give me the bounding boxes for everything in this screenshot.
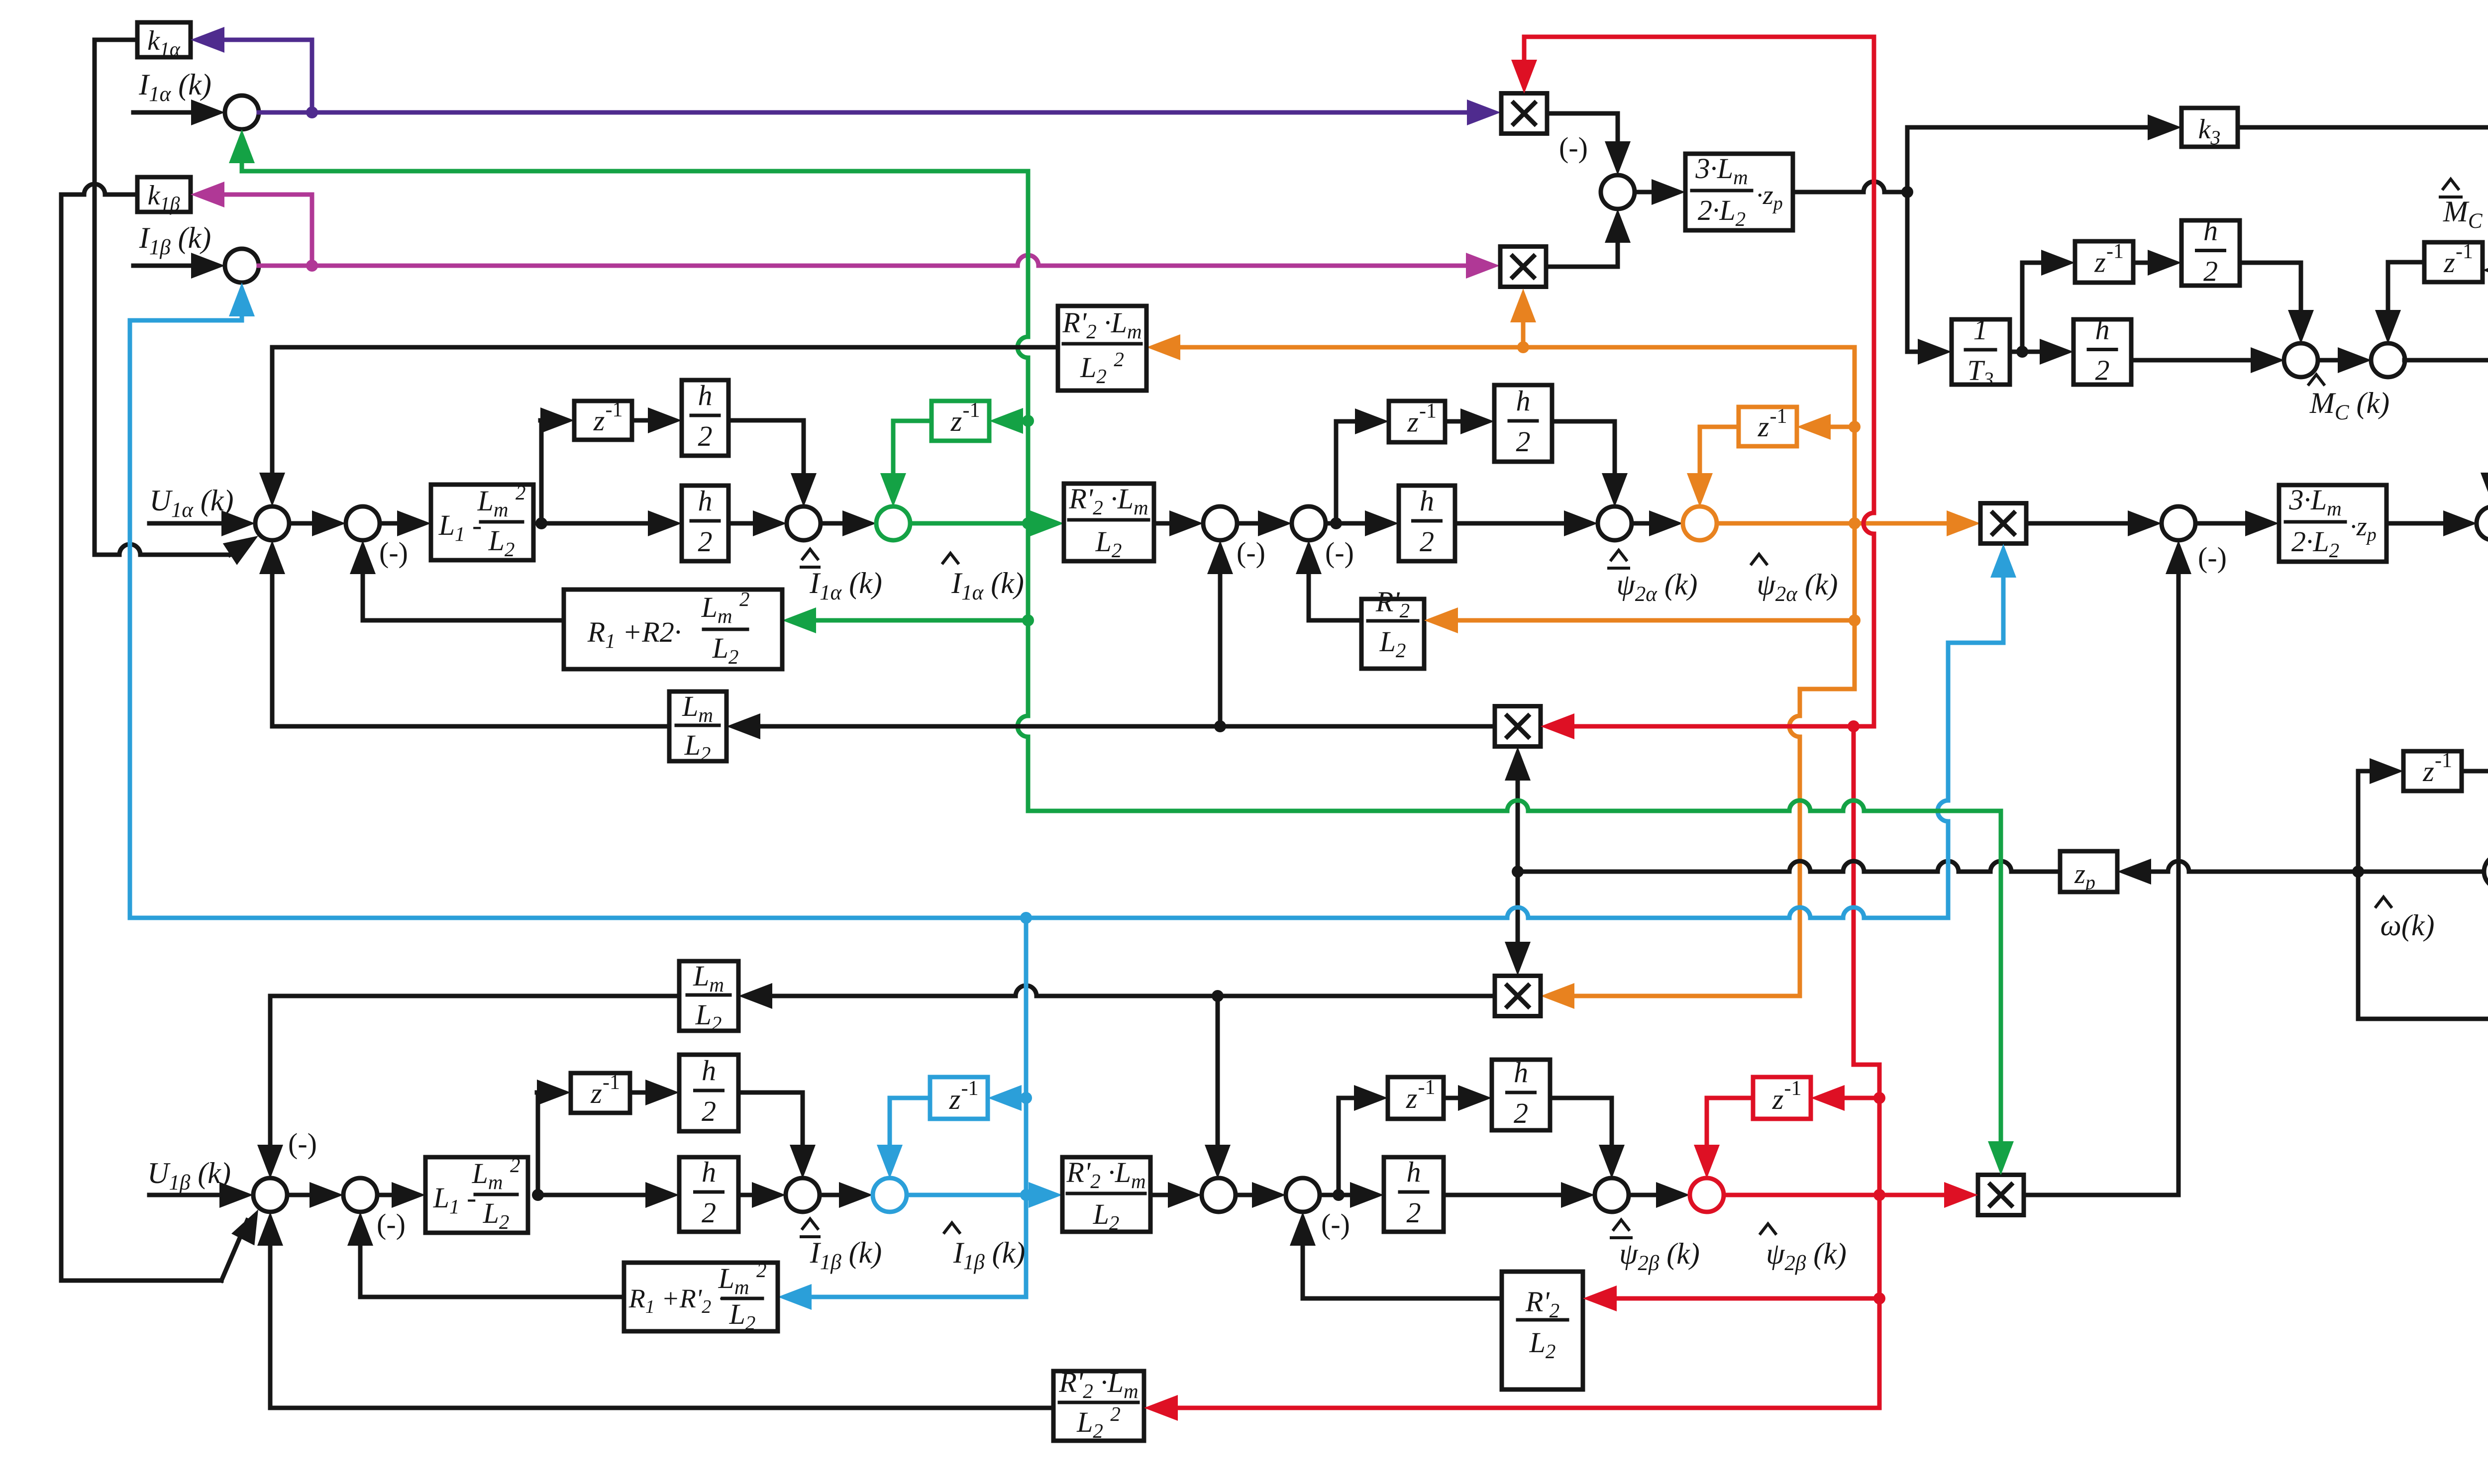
svg-text:-1: -1 [606,398,623,421]
svg-text:ψ2α (k): ψ2α (k) [1757,568,1838,606]
svg-text:2: 2 [1407,1196,1421,1229]
svg-text:ψ2β (k): ψ2β (k) [1766,1237,1847,1275]
svg-text:2: 2 [702,1196,716,1229]
svg-text:-1: -1 [1770,405,1787,428]
svg-text:z: z [1406,1082,1418,1114]
svg-text:h: h [1516,385,1531,417]
svg-text:-1: -1 [961,1077,979,1100]
svg-text:(-): (-) [1559,131,1588,164]
svg-text:(-): (-) [1325,536,1354,569]
svg-text:h: h [2203,214,2218,247]
svg-text:-1: -1 [1784,1077,1802,1100]
svg-text:-1: -1 [2106,240,2124,263]
svg-text:z: z [949,1083,961,1115]
svg-text:(-): (-) [288,1127,317,1160]
svg-text:z: z [590,1077,602,1109]
svg-text:h: h [1420,485,1434,517]
svg-text:2: 2 [1514,1097,1528,1129]
svg-text:h: h [2095,313,2110,346]
svg-text:(-): (-) [2198,541,2227,574]
svg-text:MC (k): MC (k) [2309,387,2389,424]
svg-text:2: 2 [702,1095,716,1127]
svg-text:z: z [593,404,605,437]
svg-text:2: 2 [698,525,713,558]
svg-text:(-): (-) [377,1208,406,1240]
svg-text:h: h [698,379,713,411]
svg-text:h: h [1514,1056,1528,1088]
svg-text:2: 2 [698,420,713,452]
svg-text:z: z [2443,246,2455,279]
svg-text:h: h [1407,1156,1421,1188]
svg-text:h: h [702,1054,716,1087]
svg-text:2: 2 [1516,425,1531,458]
svg-text:h: h [702,1156,716,1188]
svg-text:h: h [698,485,713,517]
svg-text:z: z [1772,1083,1784,1115]
svg-text:(-): (-) [1237,536,1265,569]
svg-text:R1 +R2·: R1 +R2· [587,616,682,652]
svg-text:2: 2 [2095,354,2110,387]
svg-text:ψ2α (k): ψ2α (k) [1617,568,1698,606]
svg-text:2: 2 [1420,525,1434,558]
svg-text:1: 1 [1973,313,1988,346]
svg-text:z: z [2094,246,2106,279]
svg-text:(-): (-) [1321,1208,1350,1240]
svg-text:ω(k): ω(k) [2381,909,2435,942]
svg-text:-1: -1 [603,1071,620,1094]
svg-text:-1: -1 [1418,1076,1436,1099]
svg-text:z: z [950,405,962,437]
svg-text:-1: -1 [2435,749,2452,772]
svg-text:z: z [1407,406,1419,438]
svg-text:2: 2 [2203,255,2218,288]
svg-text:-1: -1 [963,399,980,422]
svg-text:-1: -1 [1419,400,1437,423]
svg-text:ψ2β (k): ψ2β (k) [1619,1237,1700,1275]
svg-text:(-): (-) [379,536,408,569]
svg-text:-1: -1 [2456,240,2473,263]
svg-text:z: z [1758,410,1769,443]
svg-text:z: z [2422,755,2434,788]
